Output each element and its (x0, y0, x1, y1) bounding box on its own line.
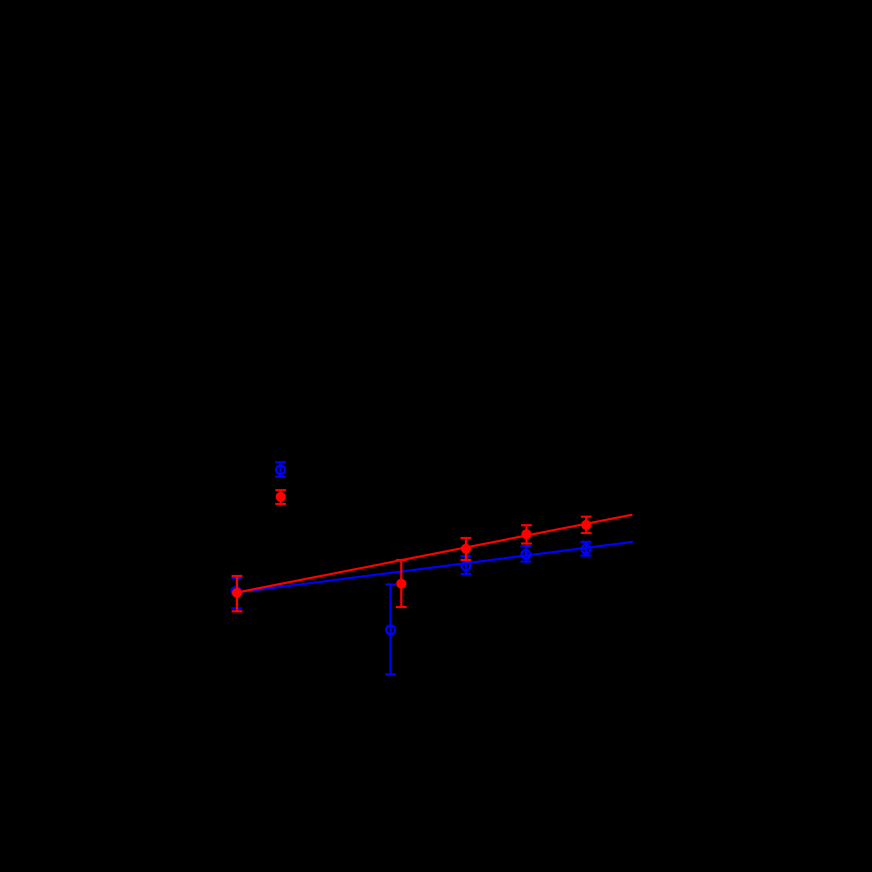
red errorbar isolated point (275, 490, 286, 504)
blue errorbar point 2 (385, 585, 396, 675)
red errorbar point 2 (396, 560, 407, 607)
blue errorbar isolated point (275, 462, 286, 476)
blue errorbar point 5 (581, 542, 592, 556)
blue errorbar point 3 (460, 556, 471, 574)
red series (drawn over blue) (232, 490, 633, 611)
red errorbar point 3 (461, 538, 472, 560)
blue series (drawn first, under red) (231, 462, 633, 674)
red errorbar point 5 (581, 517, 592, 533)
red fit line (237, 515, 632, 593)
red errorbar point 4 (521, 525, 532, 543)
blue errorbar point 1 (hidden behind red point) (231, 578, 242, 608)
blue errorbar point 4 (521, 546, 532, 561)
red errorbar point 1 (232, 576, 243, 611)
blue fit line (237, 542, 633, 593)
